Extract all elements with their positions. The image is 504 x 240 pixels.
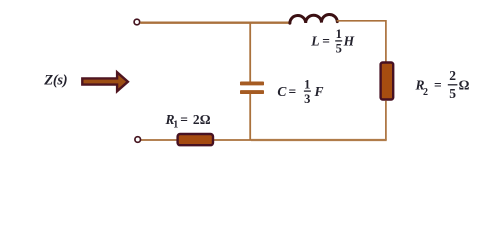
wire: top horizontal from inductor to right corner [337, 20, 386, 22]
node: top input terminal [134, 19, 140, 25]
label: C = 1/3 F [277, 77, 323, 105]
svg-text:F: F [314, 84, 324, 99]
svg-text:=: = [434, 78, 442, 93]
label: R1 = 2 ohm [165, 112, 211, 130]
svg-text:2: 2 [423, 87, 428, 98]
svg-text:=: = [322, 33, 330, 48]
svg-text:Z(s): Z(s) [43, 72, 67, 88]
svg-text:C: C [277, 84, 287, 99]
wire: right vertical from top corner to R2 [385, 20, 387, 62]
svg-text:1: 1 [336, 27, 342, 41]
svg-text:Ω: Ω [459, 78, 470, 93]
wire: top horizontal from input terminal to inductor [140, 22, 290, 24]
svg-text:1: 1 [173, 119, 178, 130]
svg-text:H: H [343, 33, 355, 48]
label: L = 1/5 H [310, 27, 354, 55]
svg-text:=: = [289, 84, 297, 99]
wire: capacitor branch upper drop from top wire [249, 22, 251, 82]
svg-text:2: 2 [449, 68, 456, 83]
wire: bottom horizontal return [141, 139, 251, 141]
resistor R1 body, value 2 ohm [178, 134, 213, 145]
svg-text:3: 3 [304, 92, 310, 106]
svg-text:=: = [180, 112, 188, 127]
resistor R2 body, value 2/5 ohm [381, 63, 394, 100]
svg-text:1: 1 [304, 77, 310, 91]
label: R2 = 2/5 ohm [415, 68, 470, 101]
svg-text:Ω: Ω [200, 112, 211, 127]
arrow: Z(s) input block arrow [82, 72, 128, 91]
capacitor C (plates), value 1/3 F [240, 82, 264, 95]
inductor L1 coil, value 1/5 H [290, 14, 337, 23]
svg-text:5: 5 [336, 42, 342, 56]
wire: capacitor branch lower drop to bottom wire [249, 94, 251, 140]
svg-text:5: 5 [449, 86, 456, 101]
wire: right vertical from R2 to bottom wire [385, 101, 387, 140]
node: bottom input terminal [135, 137, 141, 143]
svg-text:L: L [310, 33, 319, 48]
